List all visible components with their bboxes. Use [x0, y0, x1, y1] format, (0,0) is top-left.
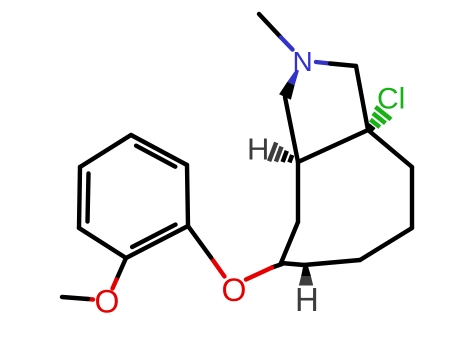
bond C_w-C5 (short) — [281, 263, 304, 265]
bond C14-C_j (vertical) — [296, 162, 300, 222]
bond C16-C6(Cl carbon) — [356, 66, 368, 130]
aromatic ring edge A6-A5 — [187, 165, 188, 226]
svg-text:H: H — [247, 132, 269, 167]
bold wedge N-C9 — [279, 69, 299, 99]
bond O_methoxy-CH3 (red half + black half) — [62, 297, 93, 300]
bond O_furan-A6 (red half + black half) — [188, 226, 225, 277]
bond C6-C7 (down-right) — [368, 130, 412, 167]
bold wedge C_w-H (down to gray H) — [299, 265, 313, 286]
bond C8-C8a (down-left) — [360, 228, 412, 260]
aromatic ring edge A4-A3 — [80, 135, 131, 167]
bond C5-O_furan (black half + red half) — [246, 264, 282, 280]
aromatic ring edge A3-A2 — [79, 167, 80, 228]
hashed wedge C6-Cl — [368, 107, 391, 130]
aromatic inner double line A6=A1 — [132, 225, 175, 247]
aromatic inner double line A2=A3 — [88, 174, 89, 222]
bond C_j-C5 — [281, 222, 298, 263]
aromatic ring edge A2-A1 — [79, 228, 126, 258]
aromatic inner double line A4=A5 — [136, 146, 175, 167]
svg-text:N: N — [293, 46, 313, 77]
bond A1-O_methoxy (black half + red half) — [113, 258, 127, 289]
aromatic ring edge A1-A6 — [126, 226, 188, 258]
bond N-C16 (right of N) — [316, 62, 356, 66]
svg-text:O: O — [95, 284, 120, 320]
bond C8a-C_w (bottom horizontal) — [304, 260, 360, 265]
svg-text:H: H — [295, 281, 319, 318]
bond N-CH3 (methyl, upper left) — [259, 14, 293, 50]
svg-text:Cl: Cl — [377, 83, 405, 116]
bond C14-C6(Cl carbon) long diagonal — [298, 130, 368, 162]
hashed wedge C14-H (to gray H label) — [269, 143, 292, 163]
bond C7-C8 (right vertical) — [410, 167, 414, 228]
aromatic ring edge A5-A4 — [131, 135, 187, 165]
bond C9-C14 (down to H stereocenter) — [285, 97, 298, 162]
